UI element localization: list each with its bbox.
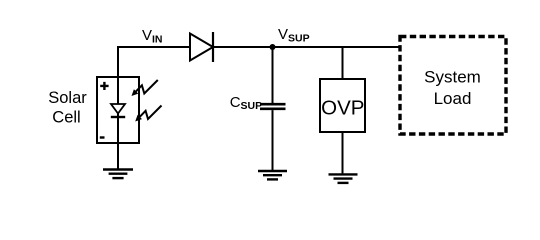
svg-text:VSUP: VSUP (278, 26, 310, 45)
wire from diode cathode to system load (213, 46, 400, 48)
photodiode inside solar cell (111, 77, 125, 143)
svg-text:System: System (424, 68, 481, 87)
wire from top rail to OVP block (342, 47, 344, 79)
wire from solar cell top to diode anode (118, 47, 190, 78)
diode D1 (190, 32, 213, 62)
OVP block U1 (320, 79, 365, 132)
wire from VSUP node down to capacitor (272, 47, 274, 103)
solar cell box (97, 77, 139, 143)
ground (solar cell) (103, 170, 133, 179)
svg-text:Solar: Solar (48, 89, 87, 107)
light arrow 2 (135, 106, 161, 122)
svg-text:CSUP: CSUP (230, 94, 262, 112)
svg-text:Load: Load (434, 89, 472, 108)
light arrow 1 (132, 80, 158, 96)
capacitor CSUP (260, 104, 286, 109)
node VSUP junction (270, 44, 276, 50)
wire from OVP block to ground (342, 132, 344, 173)
solar cell label (48, 89, 87, 127)
wire from capacitor to ground (272, 110, 274, 170)
ground (CSUP) (258, 171, 287, 179)
minus terminal mark (100, 136, 105, 138)
wire from solar cell bottom to ground (117, 143, 119, 169)
ground (OVP) (329, 174, 358, 183)
system load block (400, 37, 506, 135)
svg-text:OVP: OVP (321, 97, 364, 120)
svg-text:VIN: VIN (142, 27, 163, 46)
plus terminal mark (100, 82, 108, 90)
svg-text:Cell: Cell (52, 109, 80, 127)
